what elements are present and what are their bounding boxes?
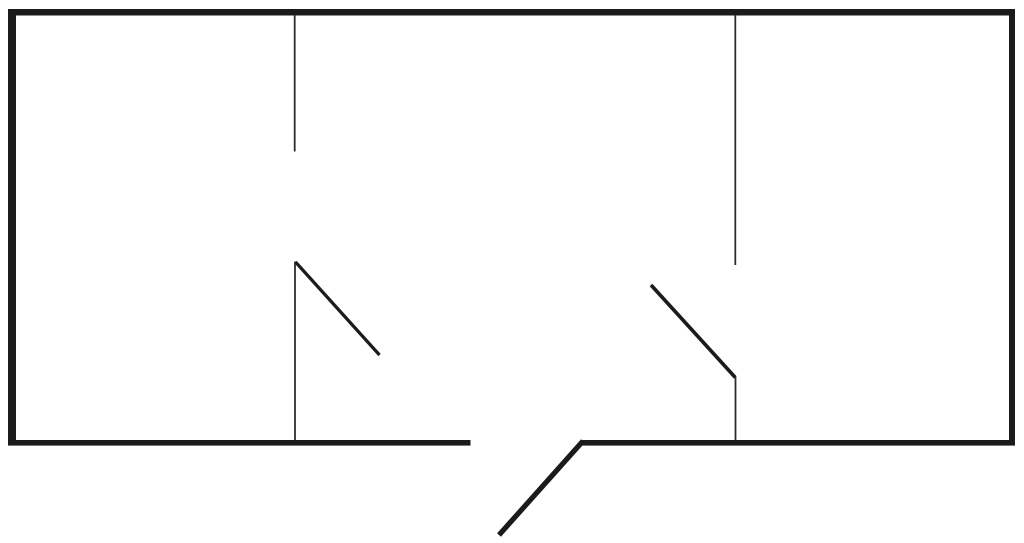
interior partition wall right, lower segment — [735, 377, 737, 440]
bottom outer wall left segment — [8, 440, 471, 446]
interior partition wall left, upper segment — [294, 15, 296, 152]
door swing middle room — [651, 285, 735, 378]
top outer wall — [8, 9, 1015, 16]
door swing left room — [296, 262, 380, 355]
right outer wall — [1009, 9, 1015, 446]
entrance door leaf — [499, 441, 583, 535]
left outer wall — [8, 9, 16, 446]
interior partition wall right, upper segment — [734, 15, 736, 265]
interior partition wall left, lower segment — [294, 262, 296, 441]
bottom outer wall right segment — [582, 440, 1016, 446]
